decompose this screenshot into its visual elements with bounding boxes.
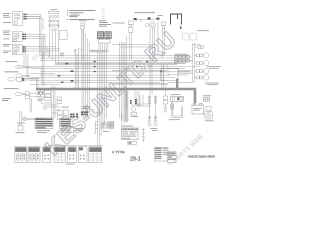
switch caption bbox=[131, 115, 138, 118]
horn terminal bbox=[22, 78, 24, 81]
wires from D bbox=[26, 47, 60, 51]
flasher relay bbox=[23, 117, 27, 121]
rear brake switches bbox=[183, 33, 197, 40]
extra left runs bbox=[30, 74, 60, 85]
ignition label small bbox=[158, 14, 164, 17]
wires to tail bus bbox=[178, 57, 193, 75]
spark plug 1 bbox=[148, 95, 151, 126]
brake switch label bbox=[197, 29, 209, 32]
top socket pair bbox=[198, 46, 204, 49]
left label block 3 bbox=[3, 44, 11, 53]
wires from A bbox=[27, 14, 41, 55]
pin terminals D bbox=[23, 46, 26, 52]
battery label bbox=[194, 108, 202, 111]
wires spark unit down bbox=[82, 29, 84, 60]
horn bbox=[8, 77, 22, 81]
box below flasher bbox=[18, 126, 23, 130]
pin terminals C bbox=[23, 34, 26, 40]
right small stack bbox=[163, 96, 167, 112]
small comp right boxes bbox=[57, 97, 62, 104]
left drop wires bbox=[24, 47, 49, 78]
bottom-center connector fan bbox=[98, 140, 100, 146]
bracket arrow bbox=[180, 26, 182, 29]
optional box outline bbox=[161, 68, 179, 80]
ignition coil pins A bbox=[130, 99, 137, 104]
front turn signal bbox=[16, 74, 22, 78]
clutch switch bbox=[128, 21, 133, 33]
brake lever switch bbox=[162, 22, 166, 29]
bulb 3 wires bbox=[194, 70, 203, 72]
small hook mark bbox=[91, 110, 94, 113]
fuse row small comps bbox=[37, 89, 44, 97]
fuse labels bbox=[38, 99, 44, 102]
small diode bbox=[171, 104, 174, 109]
wires below headlight connector bbox=[50, 18, 58, 66]
regulator connector pins bbox=[70, 111, 88, 117]
FR label bbox=[113, 22, 125, 25]
top-right dark bracket bbox=[171, 14, 182, 25]
relay column stack bbox=[58, 110, 69, 122]
table T6 bbox=[78, 147, 87, 163]
battery bbox=[192, 103, 203, 114]
svg-text:29-1: 29-1 bbox=[130, 157, 141, 163]
starter label bbox=[205, 119, 214, 122]
left lamp label 1 bbox=[6, 60, 18, 63]
main horizontal harness runs bbox=[40, 56, 192, 61]
fuse label bbox=[171, 93, 181, 96]
wires fuse column bbox=[52, 86, 60, 118]
ignition switch wiring bbox=[134, 19, 158, 22]
center-bottom drop wires bbox=[135, 60, 164, 106]
spark unit connector bbox=[81, 23, 86, 29]
bulb 3 bbox=[197, 68, 209, 73]
dotted pair bbox=[103, 8, 105, 21]
mini fuse caption bbox=[203, 94, 211, 97]
wires right small stack bbox=[131, 85, 165, 110]
connector block C bbox=[12, 32, 22, 42]
bulb 4 label bbox=[205, 83, 219, 85]
starter relay bbox=[206, 106, 211, 110]
wires horn bbox=[25, 78, 39, 88]
side lamp bbox=[15, 92, 22, 95]
connector pair upper-mid bbox=[60, 53, 63, 56]
center table caption bbox=[122, 125, 133, 128]
small box below center table bbox=[128, 141, 136, 144]
dense table A bbox=[35, 118, 53, 129]
center connector table bbox=[122, 128, 139, 140]
svg-text:0030Z-M02-0500: 0030Z-M02-0500 bbox=[188, 155, 215, 159]
connector block D bbox=[12, 44, 22, 54]
connector block A (left turn signal) bbox=[13, 12, 23, 26]
rect outline mid-left bbox=[60, 30, 68, 39]
position lamp bbox=[16, 65, 22, 68]
right connector cluster bbox=[175, 56, 190, 62]
table B caption bbox=[61, 129, 70, 132]
bulb 1 bbox=[197, 53, 209, 58]
connector bank top-center bbox=[97, 32, 111, 39]
wire colour legend right bbox=[99, 20, 111, 26]
corner small grid bbox=[168, 152, 177, 163]
left label 4 bbox=[4, 87, 19, 90]
flasher caption bbox=[17, 122, 25, 125]
coupler caption bbox=[103, 130, 109, 133]
spark plug 2 bbox=[154, 95, 157, 126]
junction dots bbox=[94, 61, 163, 72]
table caption right bbox=[150, 128, 158, 131]
table T1 bbox=[15, 147, 27, 163]
wires small mid bbox=[40, 103, 60, 110]
wires lamp2 bbox=[22, 75, 30, 76]
thick bus stub bbox=[176, 79, 178, 89]
resistor box left bbox=[27, 68, 42, 79]
right-bottom table bbox=[155, 147, 169, 161]
left label 5 bbox=[2, 98, 11, 101]
ignition coil 1 bbox=[148, 97, 150, 104]
table T3 bbox=[43, 147, 51, 163]
table T4 bbox=[54, 147, 66, 163]
CDI caption bbox=[74, 128, 83, 131]
watermark upper-left fragment bbox=[31, 53, 41, 63]
label bottom-left of battery bbox=[169, 118, 180, 121]
horn c wires bbox=[135, 104, 151, 106]
gray band C low bbox=[112, 83, 168, 85]
wires lamp1 bbox=[22, 66, 30, 67]
table T7 bbox=[89, 147, 102, 163]
vertical gray trunk shade bbox=[125, 90, 129, 122]
fuse boxes mid-left bbox=[45, 90, 51, 100]
headlight connector block bbox=[48, 11, 59, 31]
bulb 2 bbox=[197, 60, 209, 65]
ignition switch bbox=[145, 22, 155, 28]
watermark bottom-right fragment bbox=[168, 133, 205, 169]
wires down left of box bbox=[162, 64, 168, 88]
thick gray power bus bbox=[36, 89, 195, 103]
pin terminals A bbox=[23, 14, 26, 20]
bulb 2 label bbox=[207, 66, 221, 68]
sidestand switch column bbox=[120, 112, 125, 124]
connector bank pins bbox=[98, 33, 110, 38]
left lamp label 2 bbox=[5, 70, 19, 73]
starter motor bbox=[205, 111, 213, 119]
ignition coil 2 bbox=[154, 97, 156, 104]
fork terminals mid bbox=[75, 49, 82, 54]
clutch wires down bbox=[130, 33, 132, 60]
bus junction marks bbox=[60, 88, 161, 90]
regulator caption bbox=[82, 106, 91, 108]
fork symbol right of table bbox=[142, 128, 146, 142]
mini fuse grid bbox=[204, 98, 210, 102]
brake lever wires down bbox=[163, 29, 165, 58]
connector bank lower row bbox=[98, 40, 110, 43]
vertical bundle right-center bbox=[120, 36, 127, 118]
right cluster text bbox=[175, 54, 188, 64]
bulb 2 wires bbox=[194, 62, 203, 64]
optional inner box bbox=[168, 68, 178, 75]
mid vertical bundle 2 bbox=[76, 50, 79, 88]
caption below tables bbox=[66, 163, 75, 166]
table T5 bbox=[68, 147, 77, 163]
bulb 4 wires bbox=[194, 77, 203, 79]
upper short runs bbox=[112, 45, 155, 48]
table T2 bbox=[28, 147, 40, 163]
gray band B bbox=[112, 70, 167, 72]
left label block 2 bbox=[3, 31, 11, 40]
svg-text:U TYPE:: U TYPE: bbox=[112, 150, 125, 154]
ignition switch label bbox=[135, 11, 156, 14]
boxes right of lamp bbox=[25, 92, 29, 98]
bulb 4 bbox=[197, 75, 209, 80]
watermark main diagonal bbox=[40, 27, 181, 161]
wires from side lamp bbox=[22, 88, 40, 112]
wires from C bbox=[26, 34, 45, 60]
wires flasher bbox=[20, 111, 45, 126]
legend list text bbox=[67, 10, 96, 20]
gray band small bbox=[90, 50, 108, 52]
oil pressure switch circle bbox=[131, 107, 136, 115]
bulb 1 wires bbox=[194, 54, 203, 56]
dense table B bbox=[60, 118, 71, 129]
divider above tables bbox=[48, 145, 103, 147]
tail vertical bus bbox=[168, 43, 194, 83]
text block left labels top bbox=[3, 13, 11, 23]
headlight connector label bbox=[51, 8, 58, 11]
left vertical pair bbox=[43, 52, 44, 86]
fuse row pins bbox=[38, 92, 43, 93]
gray band A bbox=[55, 62, 177, 65]
alternator coupler assembly bbox=[94, 122, 114, 134]
main fuse box bbox=[171, 96, 184, 101]
ignition terminal blobs bbox=[134, 17, 160, 20]
wire U loop bbox=[171, 101, 182, 117]
spark unit label bbox=[79, 19, 87, 22]
top socket wire bbox=[193, 45, 201, 48]
junction pairs mid-left bbox=[58, 63, 74, 83]
wire A drop bbox=[27, 19, 43, 30]
label below box bbox=[16, 131, 25, 134]
vertical single far-center bbox=[157, 20, 159, 46]
harness below bank bbox=[99, 43, 108, 52]
trunk continuation to coupler bbox=[121, 114, 123, 128]
ground symbol center bbox=[98, 109, 101, 115]
relay caption bbox=[62, 106, 69, 109]
CDI box bbox=[63, 126, 74, 132]
table A caption bbox=[37, 130, 50, 133]
vertical bundle left-center bbox=[82, 30, 89, 118]
vertical bundle center bbox=[98, 52, 107, 140]
wires from ignition down bbox=[150, 27, 155, 60]
